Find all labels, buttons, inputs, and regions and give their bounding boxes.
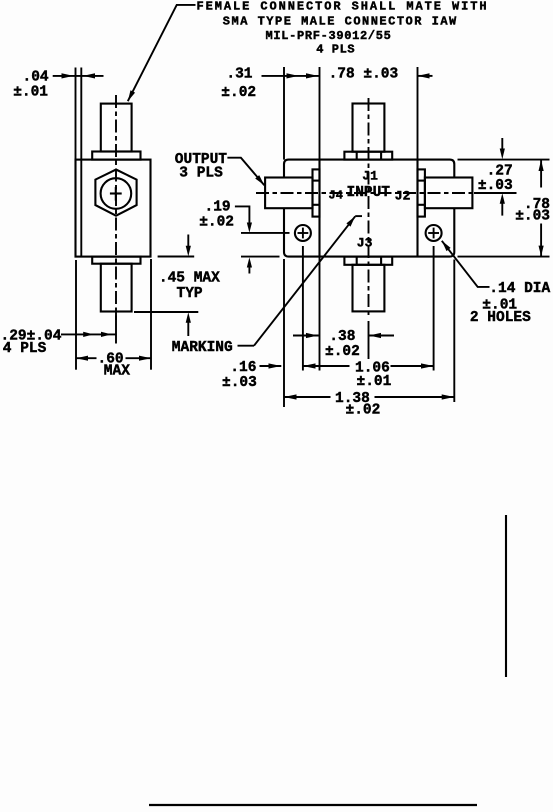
dim .45 lower reference line: [134, 311, 198, 313]
dim 1.06 dimension line: [303, 365, 350, 367]
svg-text:±.02: ±.02: [199, 214, 234, 230]
svg-text:J4: J4: [329, 189, 343, 203]
dim .19 lower extension line (plate bottom): [241, 256, 280, 258]
svg-text:.16: .16: [230, 360, 256, 376]
connector J1 flange: [344, 152, 392, 160]
top view base plate outline (with gaps where connector barrels cross): [284, 160, 454, 257]
connector J4 barrel: [265, 178, 312, 209]
svg-text:.45 MAX: .45 MAX: [159, 270, 220, 286]
note leader line: [128, 5, 196, 101]
dim .31 dimension line: [262, 75, 319, 77]
svg-text:J2: J2: [395, 189, 411, 204]
top right extension line (plate top): [458, 159, 550, 161]
dim .78 right dimension line: [540, 160, 542, 188]
side view top connector barrel: [101, 104, 132, 152]
svg-text:SMA TYPE MALE CONNECTOR IAW: SMA TYPE MALE CONNECTOR IAW: [223, 14, 458, 28]
dim 1.38 dimension line: [284, 396, 331, 398]
connector J2 barrel: [425, 178, 473, 209]
dim .38 dimension line right: [369, 335, 395, 337]
dim .78 top right arrow: [418, 75, 433, 77]
right margin vertical rule: [505, 515, 507, 677]
dim .19 leader and upper arrow: [235, 206, 250, 223]
connector J2 flange: [418, 169, 425, 216]
svg-text:±.01: ±.01: [13, 85, 48, 101]
connector J1 barrel: [353, 104, 385, 152]
dim .60 extension lines: [75, 260, 77, 370]
svg-text:.14 DIA: .14 DIA: [489, 281, 550, 297]
svg-text:INPUT: INPUT: [347, 185, 391, 201]
svg-text:.04: .04: [23, 69, 49, 85]
connector J4 flange: [313, 169, 320, 216]
vertical centerline J1-J3: [368, 98, 370, 317]
svg-text:±.03: ±.03: [515, 209, 550, 225]
dim .29 dimension line: [61, 333, 116, 335]
svg-text:.19: .19: [205, 200, 231, 216]
right mounting hole: [426, 225, 442, 241]
svg-text:MIL-PRF-39012/55: MIL-PRF-39012/55: [266, 29, 392, 43]
dim .31/.78 extension lines above: [283, 67, 285, 160]
svg-text:4 PLS: 4 PLS: [3, 341, 47, 357]
svg-text:4 PLS: 4 PLS: [316, 42, 355, 56]
dim .27 lower extension line (connector axis): [474, 192, 517, 194]
side view bottom connector flange: [92, 257, 140, 264]
connector J3 barrel: [353, 265, 385, 312]
dim .19 upper extension line (hole axis): [241, 232, 290, 234]
dim .04 dimension line: [53, 75, 104, 77]
dim .78 right arrowheads: [539, 160, 544, 171]
dim .60 dimension line: [76, 357, 97, 359]
svg-text:FEMALE CONNECTOR SHALL MATE WI: FEMALE CONNECTOR SHALL MATE WITH: [197, 0, 489, 14]
svg-text:±.02: ±.02: [221, 85, 256, 101]
bottom extension lines: [283, 259, 285, 407]
dim .31 arrowheads: [287, 73, 299, 78]
svg-text:MARKING: MARKING: [172, 340, 233, 356]
dim .29 arrowheads: [83, 332, 93, 337]
side view nut circle: [101, 178, 132, 209]
OUTPUT leader arrowhead: [255, 175, 264, 185]
MARKING leader: [238, 345, 255, 347]
dim .14 leader: [442, 241, 490, 287]
top view body square left edge: [318, 160, 320, 191]
dim .45 upper reference line: [158, 256, 195, 258]
OUTPUT leader: [227, 158, 264, 186]
horizontal centerline J4-J2: [256, 192, 481, 194]
left mounting hole: [295, 225, 311, 241]
svg-text:2 HOLES: 2 HOLES: [470, 310, 531, 326]
svg-text:.38: .38: [329, 329, 355, 345]
dim .04 arrowheads: [62, 73, 74, 78]
svg-text:±.02: ±.02: [346, 403, 381, 419]
dim .04 extension lines (plate edges above body): [75, 68, 77, 160]
dim .45 lower arrow: [186, 312, 191, 323]
dim .27 upper arrow: [501, 138, 503, 150]
dim .14 leader arrowhead: [442, 241, 451, 251]
bottom right extension line (plate bottom): [458, 256, 550, 258]
svg-text:3 PLS: 3 PLS: [179, 166, 223, 182]
side view body: [76, 160, 151, 257]
svg-text:±.02: ±.02: [325, 344, 360, 360]
svg-text:±.03: ±.03: [222, 375, 257, 391]
dim .16 dimension line: [260, 365, 282, 367]
dim .19 lower arrow: [247, 257, 252, 267]
side view vertical centerline: [115, 95, 117, 320]
svg-text:±.01: ±.01: [357, 374, 392, 390]
side view hex nut: [95, 170, 136, 216]
svg-text:J3: J3: [357, 236, 373, 251]
svg-text:.78 ±.03: .78 ±.03: [329, 67, 399, 83]
svg-text:.31: .31: [226, 67, 252, 83]
side view center plus mark: [110, 192, 122, 194]
dim .60 arrowheads: [76, 356, 88, 361]
side view bottom connector barrel: [101, 264, 132, 312]
svg-text:.27: .27: [487, 163, 513, 179]
bottom horizontal rule: [149, 804, 477, 806]
top view body square right edge: [416, 160, 418, 191]
dim .27 lower arrow: [500, 193, 505, 204]
dim .38 dimension line left: [293, 335, 319, 337]
dim 1.38 arrowheads: [284, 394, 297, 399]
dim 1.06 arrowheads: [303, 363, 316, 368]
MARKING leader arrowhead: [346, 216, 355, 226]
svg-text:±.03: ±.03: [478, 178, 513, 194]
side view top connector flange: [92, 152, 140, 160]
dim .45 upper arrow: [187, 235, 189, 248]
side view plate inner face line: [80, 160, 82, 257]
note leader arrowhead: [128, 90, 135, 101]
connector J3 flange: [344, 257, 392, 265]
svg-text:MAX: MAX: [104, 363, 130, 379]
svg-text:TYP: TYP: [177, 286, 203, 302]
svg-text:J1: J1: [362, 169, 378, 184]
